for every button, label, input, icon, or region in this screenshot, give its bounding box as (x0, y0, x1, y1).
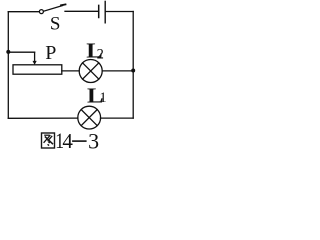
lamp L2 (79, 60, 102, 83)
wire right rail (132, 12, 134, 119)
battery long plate (positive) (104, 1, 106, 22)
switch S contact circle (39, 10, 43, 14)
wire top-left segment (8, 11, 39, 13)
wire rheostat to lamp L2 (62, 70, 79, 72)
wire top-mid segment (65, 10, 99, 12)
battery short plate (negative) (98, 5, 100, 17)
wire bottom-right segment (101, 117, 134, 119)
switch S blade (44, 6, 63, 12)
node B (right rail junction) (131, 69, 135, 73)
wire branch vertical to rheostat slider (34, 52, 36, 61)
labels layer (0, 0, 142, 151)
wire left rail (7, 12, 9, 119)
caption 图 glyph (drawn) (0, 0, 142, 151)
wire bottom-left segment (8, 117, 78, 119)
resistor (rheostat) P body (13, 65, 62, 74)
wire top-right segment (105, 11, 133, 13)
rheostat P slider arrowhead (33, 61, 37, 65)
wire branch horizontal from node A (8, 51, 34, 53)
wire lamp L2 to right rail (102, 70, 133, 72)
node A (left rail junction) (6, 50, 10, 54)
lamp L1 (78, 106, 101, 129)
caption dash (72, 140, 87, 142)
switch S blade tip tick (61, 3, 66, 6)
